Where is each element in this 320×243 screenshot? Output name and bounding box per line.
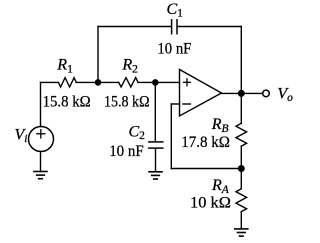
junction node R2/C2/op-amp [152,79,159,86]
wire R1 to R2 [76,81,118,83]
wire vertical from top wire down to R1/R2 node [97,27,99,83]
resistor RA [236,189,247,212]
wire RB to junction [240,146,242,168]
wire C1 to top right corner [178,26,242,28]
resistor R1 [58,78,76,87]
junction RB/RA node [238,165,245,172]
plus sign op-amp input [184,79,191,86]
wire RA to ground [240,212,242,229]
op-amp U1 [180,70,222,117]
minus sign op-amp input [183,103,190,105]
svg-text:15.8 kΩ: 15.8 kΩ [104,93,150,110]
wire output node down to RB [240,93,242,123]
resistor RB [236,123,247,146]
wire junction down to RA [240,169,242,189]
wire top left segment to C1 [98,26,171,28]
wire feedback bottom horizontal [171,168,241,170]
junction output node [238,90,245,97]
plus sign in Vi [37,130,45,138]
svg-text:10 nF: 10 nF [109,143,144,160]
junction node R1/R2/C1 [95,79,102,86]
ground below C2 [149,172,162,179]
ground below RA [235,229,248,236]
svg-text:10 kΩ: 10 kΩ [190,195,231,212]
terminal Vo open circle [263,90,270,97]
wire Vi vertical up to main line [40,82,42,126]
wire minus input stub [171,103,179,105]
svg-text:17.8 kΩ: 17.8 kΩ [181,134,230,151]
wire C2 to ground [155,149,157,172]
ground below Vi [34,172,47,179]
wire C2 vertical from node to capacitor [154,82,156,141]
wire R2 to op-amp plus input [138,81,179,83]
capacitor C2 [149,142,163,148]
wire main line left corner to R1 [41,81,59,83]
wire vertical from top wire down to output node [240,27,242,94]
wire Vi to ground [40,152,42,172]
resistor R2 [119,78,138,87]
capacitor C1 [172,20,177,34]
source Vi [29,127,54,152]
wire op-amp output to terminal [222,92,263,94]
svg-text:15.8 kΩ: 15.8 kΩ [43,93,91,110]
svg-text:10 nF: 10 nF [157,40,191,57]
wire feedback vertical [170,104,172,169]
